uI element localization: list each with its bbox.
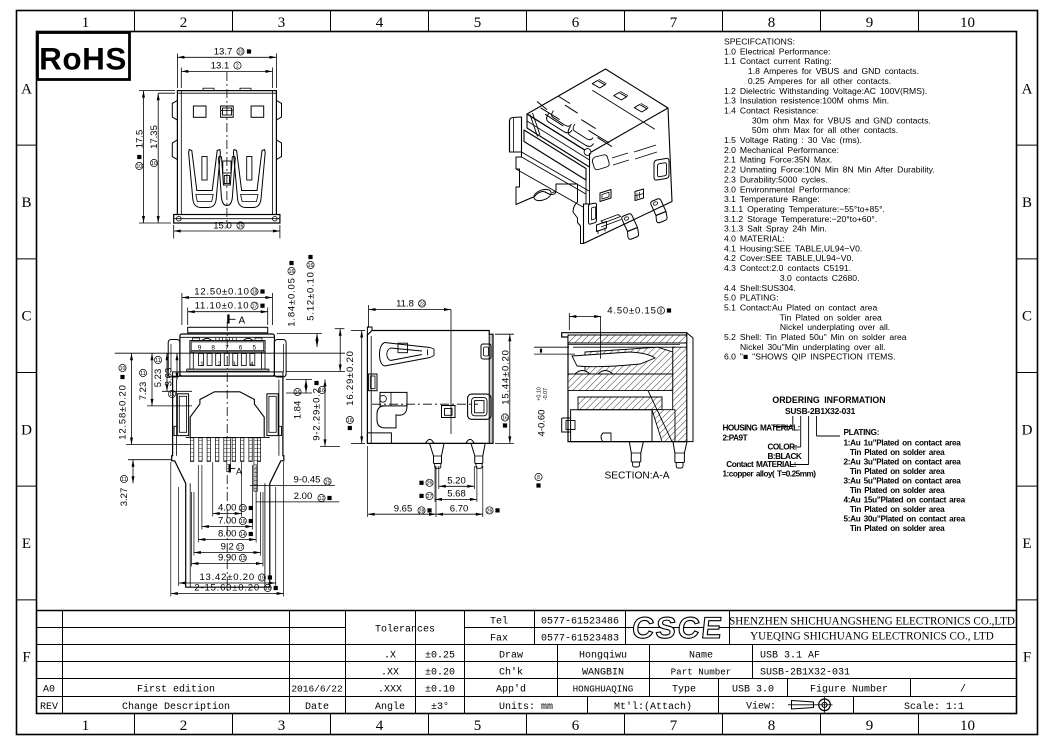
dim 13.1 view1: [180, 68, 182, 89]
svg-text:1.5 Voltage Rating : 30 Vac (r: 1.5 Voltage Rating : 30 Vac (rms).: [724, 135, 862, 145]
svg-text:.XX: .XX: [381, 668, 399, 679]
svg-text:1.84: 1.84: [293, 401, 304, 420]
svg-text:A: A: [1022, 81, 1033, 97]
svg-text:USB 3.1 AF: USB 3.1 AF: [760, 651, 820, 662]
svg-text:4-0.60: 4-0.60: [537, 410, 548, 437]
svg-text:7: 7: [225, 344, 229, 351]
svg-text:Tin Plated on solder area: Tin Plated on solder area: [844, 467, 946, 476]
svg-text:7.23: 7.23: [138, 382, 149, 401]
svg-text:3.27: 3.27: [119, 488, 130, 507]
svg-text:5.23: 5.23: [153, 369, 164, 388]
dim 12.50+-0.10 view3: [181, 293, 183, 325]
dim 9.90 (view3 bottom): [190, 492, 192, 567]
VIEW 2: isometric view: [510, 69, 673, 244]
svg-text:+0.10: +0.10: [537, 387, 543, 401]
svg-text:.XXX: .XXX: [378, 685, 402, 696]
svg-text:9.90: 9.90: [218, 553, 237, 564]
svg-text:Mt'l:(Attach): Mt'l:(Attach): [614, 701, 692, 713]
svg-text:16: 16: [295, 390, 301, 396]
svg-text:11.10±0.10: 11.10±0.10: [195, 301, 250, 312]
svg-text:D: D: [1022, 422, 1033, 438]
svg-text:10: 10: [960, 15, 975, 31]
svg-text:14: 14: [240, 532, 246, 538]
svg-text:3.1.1 Operating Temperature:−5: 3.1.1 Operating Temperature:−55°to+85°.: [724, 204, 885, 214]
svg-text:20: 20: [265, 586, 271, 592]
svg-text:27: 27: [427, 494, 433, 500]
svg-text:7: 7: [670, 15, 678, 31]
svg-text:13: 13: [240, 556, 246, 562]
svg-text:±0.10: ±0.10: [425, 685, 455, 696]
VIEW 1: rear view of connector: [172, 72, 281, 228]
dim 4.50+-0.15 (view5): [568, 313, 570, 330]
svg-text:16: 16: [240, 519, 246, 525]
dim 3.27 (view3 left): [132, 460, 134, 484]
svg-text:10: 10: [151, 161, 157, 167]
svg-text:Tel: Tel: [490, 616, 508, 628]
svg-text:Tin Plated on solder area: Tin Plated on solder area: [844, 448, 946, 457]
svg-text:1.4 Contact Resistance:: 1.4 Contact Resistance:: [724, 105, 818, 115]
svg-text:10: 10: [136, 164, 142, 170]
svg-text:15: 15: [325, 479, 331, 485]
svg-text:Units: mm: Units: mm: [499, 701, 553, 713]
grid column ticks and numbers: [134, 11, 136, 32]
svg-text:3.63: 3.63: [164, 368, 175, 387]
svg-text:2-15.60±0.20: 2-15.60±0.20: [194, 583, 260, 594]
svg-text:0.25 Amperes for all other con: 0.25 Amperes for all other contacts.: [724, 76, 891, 86]
svg-text:1: 1: [200, 361, 204, 368]
svg-text:2: 2: [236, 63, 239, 69]
dim 15.0 view1: [173, 225, 175, 238]
svg-text:6: 6: [572, 718, 580, 734]
dim 13.7 view1: [176, 54, 178, 89]
svg-text:6.70: 6.70: [450, 503, 469, 514]
dim 17.5 view1: [139, 90, 175, 92]
svg-text:50m ohm Max for all other cont: 50m ohm Max for all other contacts.: [724, 125, 898, 135]
svg-text:15.44±0.20: 15.44±0.20: [500, 349, 511, 404]
svg-text:1.0 Electrical Performance:: 1.0 Electrical Performance:: [724, 46, 830, 56]
svg-text:5.20: 5.20: [447, 475, 466, 486]
svg-text:USB 3.0: USB 3.0: [732, 685, 774, 696]
svg-text:YUEQING SHICHUANG ELECTRONICS: YUEQING SHICHUANG ELECTRONICS CO., LTD: [750, 631, 994, 643]
svg-text:9: 9: [198, 344, 202, 351]
third angle projection symbol: [792, 701, 814, 710]
svg-text:8: 8: [660, 308, 663, 314]
dim 3.63 (view3 left): [176, 353, 178, 380]
svg-text:3.1 Temperature Range:: 3.1 Temperature Range:: [724, 194, 820, 204]
svg-text:12.58±0.20: 12.58±0.20: [118, 384, 129, 439]
svg-text:11: 11: [169, 392, 174, 398]
svg-text:2.00: 2.00: [294, 491, 313, 502]
svg-text:A: A: [21, 81, 32, 97]
svg-text:5: 5: [474, 15, 482, 31]
svg-text:30m ohm Max for VBUS and GND c: 30m ohm Max for VBUS and GND contacts.: [724, 115, 931, 125]
svg-text:F: F: [1023, 650, 1031, 666]
dim 7.23 (view3 left): [151, 353, 153, 406]
dim 16.29+-0.20 (view4 left): [351, 330, 365, 332]
dim 17.35 view1: [158, 92, 175, 94]
svg-text:16.29±0.20: 16.29±0.20: [345, 350, 356, 405]
svg-text:Nickel 30u"Min underplating ov: Nickel 30u"Min underplating over all.: [724, 342, 886, 352]
svg-text:11.8: 11.8: [396, 299, 414, 310]
svg-text:6.0 "■ "SHOWS QIP INSPECTION I: 6.0 "■ "SHOWS QIP INSPECTION ITEMS.: [724, 352, 895, 362]
svg-text:8: 8: [768, 718, 776, 734]
dim 1.84+-0.05 (view3 right): [277, 333, 322, 335]
dims below view4: [438, 466, 440, 489]
VIEW 5: section view A-A: [562, 333, 693, 468]
VIEW 3: mating face view and bottom body: [168, 322, 286, 592]
svg-text:CSCE: CSCE: [631, 612, 726, 645]
svg-text:F: F: [22, 650, 30, 666]
svg-text:HONGHUAQING: HONGHUAQING: [573, 684, 634, 695]
dim 4.00 (view3 bottom): [212, 462, 214, 517]
svg-text:Nickel underplating over all.: Nickel underplating over all.: [724, 322, 890, 332]
specifications text block: [724, 37, 935, 362]
svg-text:16: 16: [289, 269, 295, 275]
svg-text:5.2 Shell: Tin Plated 50u" Min: 5.2 Shell: Tin Plated 50u" Min on solder…: [724, 332, 907, 342]
svg-text:SECTION:A-A: SECTION:A-A: [604, 471, 669, 482]
svg-text:1:copper alloy( T=0.25mm): 1:copper alloy( T=0.25mm): [723, 469, 817, 478]
svg-text:1:Au 1u"Plated on contact area: 1:Au 1u"Plated on contact area: [844, 438, 962, 447]
svg-text:View:: View:: [746, 701, 776, 713]
dim 11.10+-0.10 view3: [187, 308, 189, 326]
svg-text:6: 6: [239, 344, 243, 351]
leader 2.00 (view3): [256, 501, 340, 503]
svg-text:16: 16: [308, 263, 314, 269]
svg-text:11: 11: [155, 358, 160, 364]
svg-text:1.3 Insulation resistence:100M: 1.3 Insulation resistence:100M ohms Min.: [724, 96, 889, 106]
svg-text:4: 4: [250, 361, 254, 368]
dim 5.23 (view3 left): [166, 353, 168, 391]
plating list: [844, 428, 966, 533]
svg-text:A: A: [239, 316, 246, 327]
svg-text:Type: Type: [672, 685, 696, 696]
svg-text:C: C: [21, 309, 31, 325]
svg-text:1: 1: [82, 15, 90, 31]
svg-text:16: 16: [319, 388, 325, 394]
svg-text:Ch'k: Ch'k: [499, 667, 523, 679]
svg-text:13.7: 13.7: [214, 47, 233, 58]
svg-text:First edition: First edition: [137, 684, 215, 696]
svg-text:3: 3: [278, 718, 286, 734]
svg-text:Tin Plated on solder area: Tin Plated on solder area: [844, 524, 946, 533]
svg-text:4.1 Housing:SEE TABLE,UL94−V0.: 4.1 Housing:SEE TABLE,UL94−V0.: [724, 243, 862, 253]
svg-text:1.1 Contact current Rating:: 1.1 Contact current Rating:: [724, 56, 832, 66]
leader 9-0.45 (view3): [250, 484, 335, 486]
svg-text:13.1: 13.1: [211, 61, 230, 72]
dim 8.00 (view3 bottom): [197, 465, 199, 543]
svg-text:3.1.3 Salt Spray 24h Min.: 3.1.3 Salt Spray 24h Min.: [724, 224, 827, 234]
svg-text:10: 10: [120, 366, 126, 372]
svg-text:8: 8: [211, 344, 215, 351]
dim 4-0.60 (view5 left): [534, 346, 569, 348]
svg-text:4.50±0.15: 4.50±0.15: [607, 306, 656, 317]
svg-text:Tin Plated on solder area: Tin Plated on solder area: [844, 505, 946, 514]
svg-text:2.0 Mechanical Performance:: 2.0 Mechanical Performance:: [724, 145, 839, 155]
svg-text:REV: REV: [40, 702, 58, 713]
svg-text:3: 3: [278, 15, 286, 31]
svg-text:9: 9: [866, 15, 874, 31]
svg-text:2.1 Mating Force:35N Max.: 2.1 Mating Force:35N Max.: [724, 155, 832, 165]
dim 9.2 (view3 bottom): [193, 492, 195, 556]
svg-text:10: 10: [238, 49, 244, 55]
svg-text:10: 10: [960, 718, 975, 734]
svg-text:3.0 Environmental Performance:: 3.0 Environmental Performance:: [724, 184, 850, 194]
svg-text:Scale: 1:1: Scale: 1:1: [904, 701, 964, 713]
svg-text:9.65: 9.65: [394, 503, 413, 514]
svg-text:PLATING:: PLATING:: [844, 428, 880, 437]
dim 15.44+-0.20 (view4 right): [495, 333, 514, 335]
dim 5.12+-0.10 (view3 right): [286, 371, 345, 373]
svg-text:6: 6: [572, 15, 580, 31]
svg-text:0577-61523483: 0577-61523483: [541, 634, 619, 645]
dim 11.8 (view4): [368, 305, 370, 328]
svg-text:App'd: App'd: [496, 684, 526, 696]
svg-text:2: 2: [217, 361, 221, 368]
svg-text:COLOR:: COLOR:: [768, 443, 797, 452]
svg-text:4.2 Cover:SEE TABLE,UL94−V0.: 4.2 Cover:SEE TABLE,UL94−V0.: [724, 253, 854, 263]
dim 12.58+-0.20 (view3 left): [131, 353, 133, 444]
svg-text:2: 2: [180, 15, 188, 31]
svg-text:17.35: 17.35: [149, 125, 160, 149]
svg-text:/: /: [960, 684, 966, 696]
svg-text:7.00: 7.00: [218, 516, 237, 527]
svg-text:4: 4: [376, 718, 384, 734]
svg-text:A0: A0: [43, 685, 55, 696]
svg-text:1: 1: [82, 718, 90, 734]
grid row ticks and letters: [17, 144, 37, 146]
section A marker bottom (view3): [228, 465, 230, 473]
svg-text:2:PA9T: 2:PA9T: [723, 434, 748, 443]
svg-text:-0.07: -0.07: [543, 388, 549, 400]
svg-text:17: 17: [237, 545, 243, 551]
svg-text:Tolerances: Tolerances: [375, 624, 435, 636]
dim 9-2.29+-0.2 (view3 lower right): [324, 380, 326, 447]
svg-text:9.2: 9.2: [221, 542, 234, 553]
svg-text:18: 18: [252, 289, 258, 295]
svg-text:A: A: [236, 467, 242, 477]
svg-text:B: B: [1022, 195, 1032, 211]
svg-text:19: 19: [259, 575, 265, 581]
svg-text:9-0.45: 9-0.45: [294, 474, 321, 485]
dim 1.84 (view3 lower right): [286, 379, 312, 381]
svg-text:C: C: [1022, 309, 1032, 325]
svg-text:13.42±0.20: 13.42±0.20: [199, 572, 254, 583]
svg-text:33: 33: [240, 506, 246, 512]
svg-text:SUSB-2B1X32-031: SUSB-2B1X32-031: [785, 406, 856, 416]
svg-text:2016/6/22: 2016/6/22: [291, 684, 343, 695]
svg-text:SPECIFCATIONS:: SPECIFCATIONS:: [724, 37, 795, 47]
svg-text:2: 2: [180, 718, 188, 734]
svg-text:SHENZHEN SHICHUANGSHENG ELECTR: SHENZHEN SHICHUANGSHENG ELECTRONICS CO.,…: [729, 616, 1015, 628]
svg-text:0577-61523486: 0577-61523486: [541, 617, 619, 628]
svg-text:8: 8: [537, 475, 540, 481]
svg-text:Fax: Fax: [490, 634, 508, 645]
svg-text:4.0 MATERIAL:: 4.0 MATERIAL:: [724, 234, 785, 244]
svg-text:16: 16: [502, 415, 508, 421]
svg-text:HOUSING MATERIAL:: HOUSING MATERIAL:: [723, 424, 800, 433]
svg-text:1.2 Dielectric Withstanding Vo: 1.2 Dielectric Withstanding Voltage:AC 1…: [724, 86, 927, 96]
svg-text:5.0 PLATING:: 5.0 PLATING:: [724, 293, 778, 303]
svg-text:Tin Plated on solder area: Tin Plated on solder area: [724, 312, 882, 322]
title block grid: [37, 610, 1017, 612]
svg-text:2.3 Durability:5000 cycles.: 2.3 Durability:5000 cycles.: [724, 174, 828, 184]
svg-text:9: 9: [866, 718, 874, 734]
ordering labels left: [723, 424, 817, 479]
svg-text:17.5: 17.5: [134, 130, 145, 149]
svg-text:RoHS: RoHS: [39, 41, 127, 77]
svg-text:3: 3: [232, 361, 236, 368]
svg-text:5.68: 5.68: [447, 489, 466, 500]
svg-text:E: E: [22, 536, 31, 552]
svg-text:D: D: [21, 422, 32, 438]
svg-text:7: 7: [670, 718, 678, 734]
svg-text:9-2.29±0.2: 9-2.29±0.2: [312, 387, 323, 440]
VIEW 4: side view: [367, 327, 493, 468]
section A marker top (view3): [227, 315, 229, 324]
svg-text:4.3 Contcct:2.0 contacts C5191: 4.3 Contcct:2.0 contacts C5191.: [724, 263, 851, 273]
svg-text:B: B: [21, 195, 31, 211]
svg-text:3.1.2 Storage Temperature:−20°: 3.1.2 Storage Temperature:−20°to+60°.: [724, 214, 877, 224]
svg-text:±3°: ±3°: [431, 701, 449, 713]
svg-text:Part Number: Part Number: [671, 667, 732, 678]
svg-text:Tin Plated on solder area: Tin Plated on solder area: [844, 486, 946, 495]
datum line y353 (view3): [115, 352, 345, 354]
svg-text:1.8 Amperes for VBUS and GND c: 1.8 Amperes for VBUS and GND contacts.: [724, 66, 919, 76]
svg-text:Angle: Angle: [375, 701, 405, 713]
svg-text:28: 28: [419, 508, 425, 514]
svg-text:Contact MATERIAL:: Contact MATERIAL:: [726, 460, 796, 469]
svg-text:4:Au 15u"Plated on contact are: 4:Au 15u"Plated on contact area: [844, 495, 966, 504]
svg-text:±0.25: ±0.25: [425, 651, 455, 662]
svg-text:Draw: Draw: [499, 651, 523, 662]
svg-text:.X: .X: [384, 651, 396, 662]
svg-text:Hongqiwu: Hongqiwu: [579, 650, 627, 662]
svg-text:SUSB-2B1X32-031: SUSB-2B1X32-031: [760, 668, 850, 679]
dim 7.00 (view3 bottom): [201, 465, 203, 530]
svg-text:17: 17: [252, 304, 258, 310]
svg-text:E: E: [1022, 536, 1031, 552]
svg-text:Change Description: Change Description: [122, 701, 230, 713]
svg-text:3:Au 5u"Plated on contact area: 3:Au 5u"Plated on contact area: [844, 476, 962, 485]
svg-text:16: 16: [238, 223, 244, 229]
svg-text:2.2 Unmating Force:10N Min 8N: 2.2 Unmating Force:10N Min 8N Min After …: [724, 165, 935, 175]
svg-text:1.84±0.05: 1.84±0.05: [287, 277, 298, 326]
svg-text:Figure Number: Figure Number: [810, 684, 888, 696]
svg-text:26: 26: [427, 481, 433, 487]
svg-text:4.00: 4.00: [218, 503, 237, 514]
svg-text:5: 5: [474, 718, 482, 734]
svg-text:Date: Date: [305, 702, 329, 713]
svg-text:26: 26: [487, 508, 493, 514]
svg-text:11: 11: [121, 477, 126, 483]
svg-text:4.4 Shell:SUS304.: 4.4 Shell:SUS304.: [724, 283, 796, 293]
svg-text:12: 12: [319, 496, 325, 502]
svg-text:5.12±0.10: 5.12±0.10: [306, 271, 317, 320]
svg-text:WANGBIN: WANGBIN: [582, 668, 624, 679]
svg-text:15.0: 15.0: [213, 220, 232, 231]
svg-text:8: 8: [768, 15, 776, 31]
RoHS logo box: [38, 33, 130, 80]
svg-text:Name: Name: [689, 651, 713, 662]
svg-text:4: 4: [376, 15, 384, 31]
ordering leader lines: [792, 416, 794, 427]
svg-text:ORDERING INFORMATION: ORDERING INFORMATION: [772, 395, 885, 405]
svg-text:5: 5: [252, 344, 256, 351]
dim 13.42 (view3 bottom): [178, 487, 180, 586]
dim 2-15.60 (view3 bottom): [170, 462, 172, 597]
svg-text:5.1 Contact:Au Plated on conta: 5.1 Contact:Au Plated on contact area: [724, 302, 877, 312]
svg-text:±0.20: ±0.20: [425, 668, 455, 679]
svg-text:23: 23: [419, 301, 425, 307]
svg-text:2:Au 3u"Plated on contact area: 2:Au 3u"Plated on contact area: [844, 457, 962, 466]
svg-text:5:Au 30u"Plated on contact are: 5:Au 30u"Plated on contact area: [844, 514, 966, 523]
svg-text:3.0 contacts C2680.: 3.0 contacts C2680.: [724, 273, 859, 283]
svg-text:11: 11: [140, 371, 145, 377]
svg-text:12.50±0.10: 12.50±0.10: [194, 287, 249, 298]
svg-text:8.00: 8.00: [218, 529, 237, 540]
svg-text:16: 16: [347, 418, 353, 424]
